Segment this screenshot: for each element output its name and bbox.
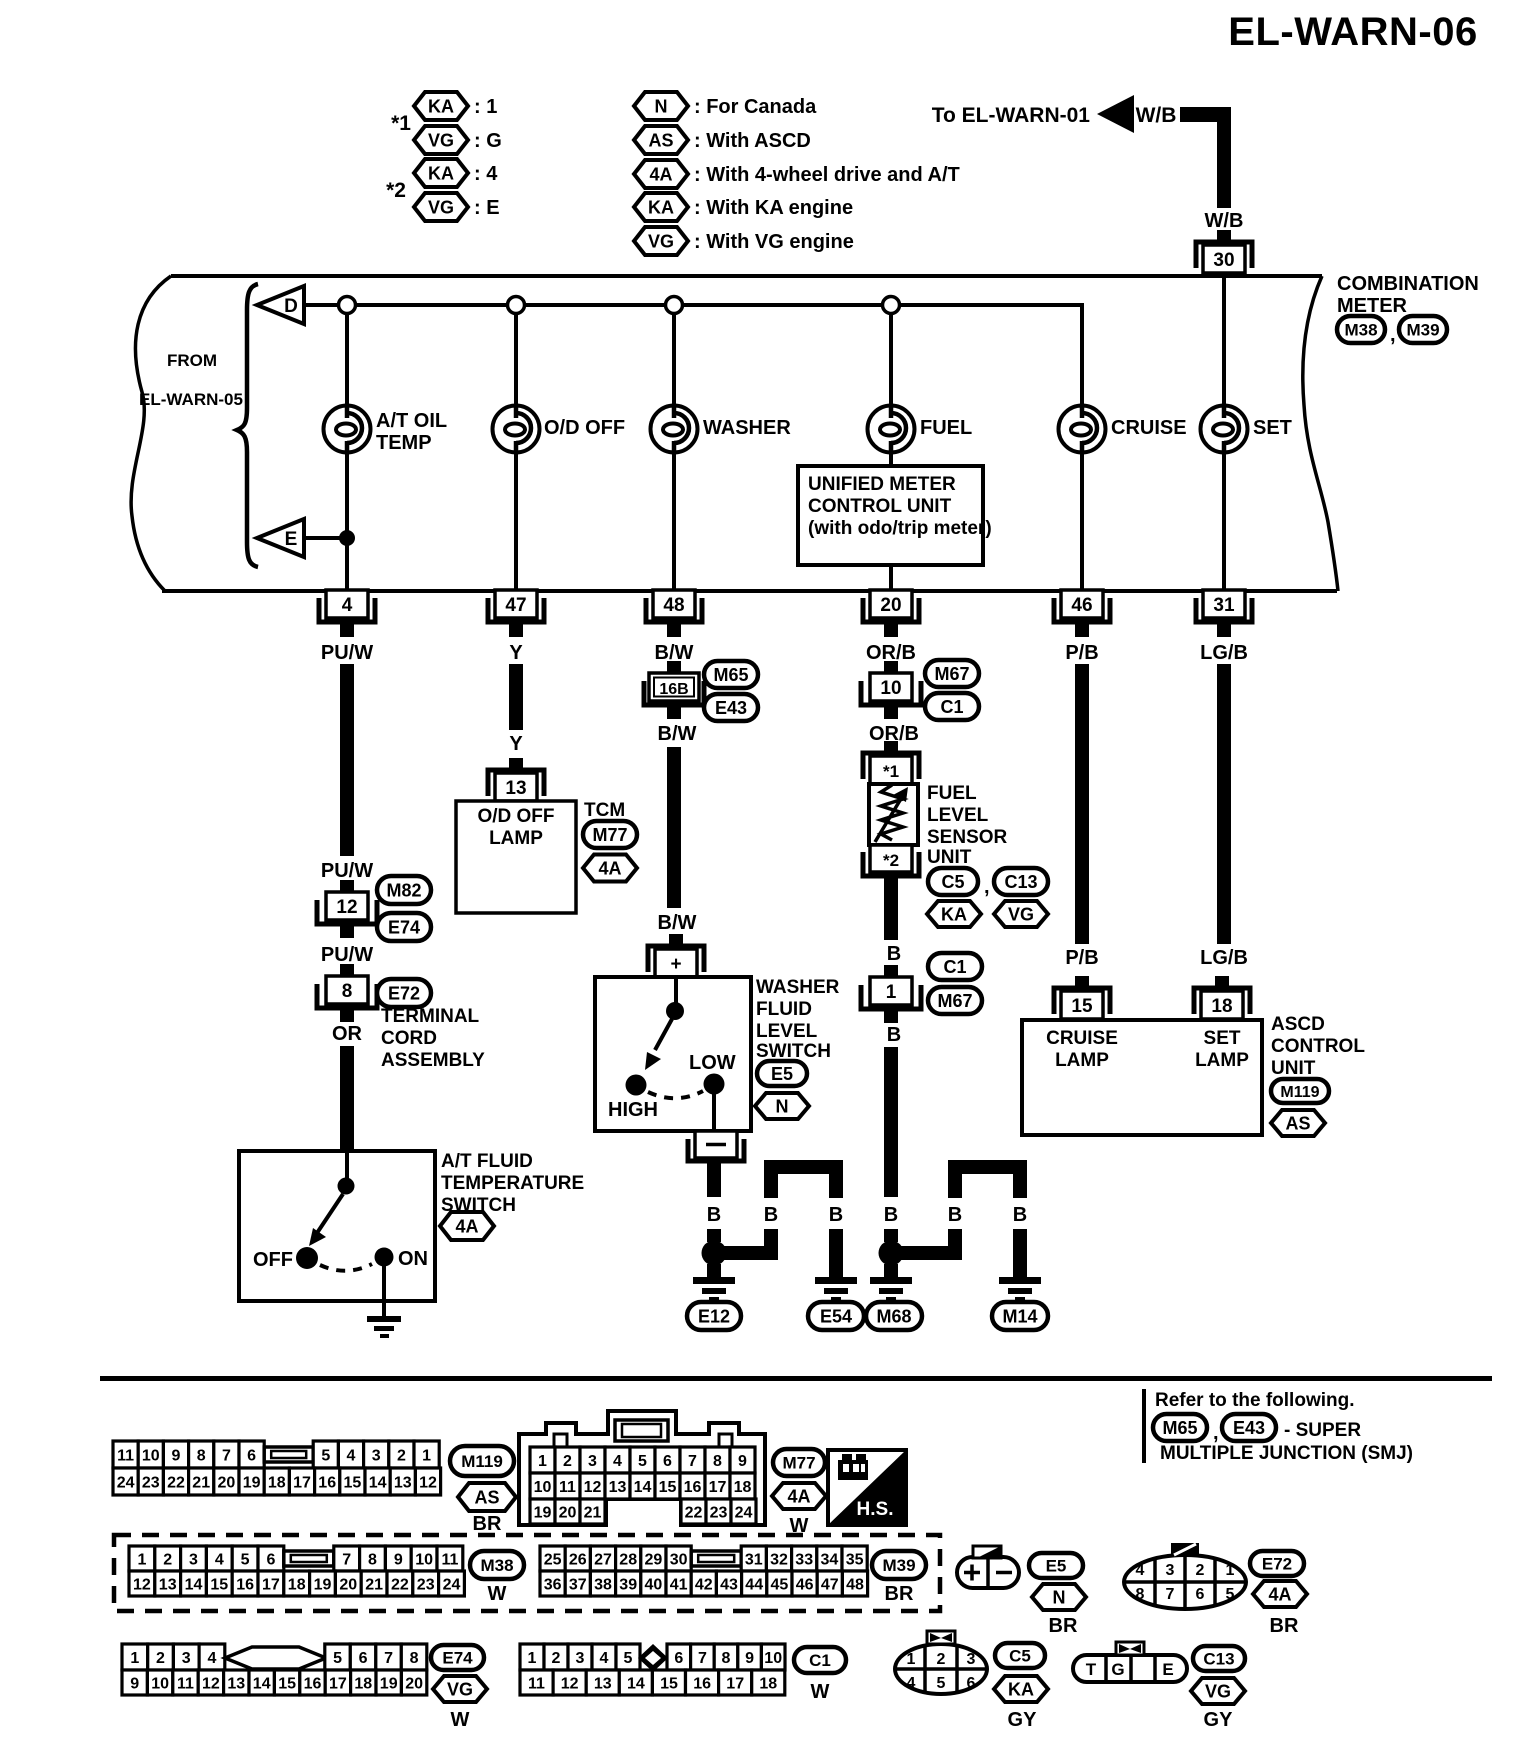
svg-text:23: 23 [417, 1576, 435, 1593]
lamp O/D OFF [493, 406, 626, 453]
svg-text:B: B [887, 943, 901, 965]
svg-text:*1: *1 [391, 112, 411, 135]
washer switch pivot contact [666, 1002, 684, 1020]
svg-text:W/B: W/B [1205, 210, 1244, 232]
connector - (washer switch bottom) [688, 1131, 744, 1176]
svg-text:M67: M67 [937, 991, 972, 1011]
svg-text:6: 6 [266, 1551, 275, 1568]
junction circle D/fuel [883, 297, 900, 314]
svg-text:B: B [887, 1024, 901, 1046]
svg-text:METER: METER [1337, 295, 1408, 317]
connector M77 key slot [615, 1420, 668, 1441]
svg-text:: E: : E [474, 197, 500, 219]
svg-text:15: 15 [660, 1675, 678, 1692]
meter pin 4 [319, 590, 375, 637]
svg-text:O/D OFF: O/D OFF [544, 417, 625, 439]
A/T switch ON contact [375, 1248, 394, 1267]
svg-text:8: 8 [342, 981, 353, 1002]
connector 10 (M67/C1) [861, 661, 921, 719]
svg-text:16: 16 [236, 1576, 254, 1593]
svg-text:N: N [776, 1096, 789, 1116]
svg-text:COMBINATION: COMBINATION [1337, 273, 1479, 295]
svg-text:48: 48 [846, 1576, 864, 1593]
svg-text:FUEL: FUEL [920, 417, 972, 439]
wire O/D off column (meter) [514, 305, 518, 591]
svg-text:10: 10 [534, 1479, 552, 1496]
connector ref E72 (grid) [1250, 1551, 1304, 1576]
svg-text:M65: M65 [1162, 1418, 1197, 1438]
svg-text:M39: M39 [1406, 321, 1439, 340]
connector ref M65 [704, 661, 758, 688]
svg-text:: With ASCD: : With ASCD [694, 130, 811, 152]
svg-text:M65: M65 [713, 665, 748, 685]
section divider line [100, 1376, 1492, 1381]
svg-text:O/D OFF: O/D OFF [477, 806, 554, 827]
connector grid M39 [540, 1546, 868, 1596]
svg-text:11: 11 [177, 1675, 194, 1692]
junction dot M68 [879, 1241, 904, 1266]
svg-text:KA: KA [428, 96, 454, 116]
svg-text:18: 18 [268, 1474, 286, 1491]
connector ref M77 (TCM) [583, 821, 637, 848]
svg-text:30: 30 [670, 1551, 688, 1568]
connector 12 (M82/E74) [317, 880, 377, 938]
label A/T FLUID TEMPERATURE SWITCH [441, 1151, 584, 1216]
svg-text:4: 4 [613, 1453, 622, 1470]
svg-text:: G: : G [474, 130, 502, 152]
svg-text:33: 33 [795, 1551, 813, 1568]
svg-text:CRUISE: CRUISE [1046, 1028, 1118, 1049]
wire M14 branch left leg upper [948, 1174, 962, 1198]
legend hex VG (*2) [414, 193, 468, 221]
svg-text:CRUISE: CRUISE [1111, 417, 1187, 439]
arrow to EL-WARN-01 [1097, 95, 1134, 133]
svg-text:B/W: B/W [655, 642, 694, 664]
svg-text:38: 38 [594, 1576, 612, 1593]
svg-text:28: 28 [619, 1551, 637, 1568]
connector ref M39 (meter) [1399, 316, 1447, 343]
svg-text:19: 19 [380, 1675, 398, 1692]
ground (A/T switch) [367, 1316, 401, 1338]
svg-text:LAMP: LAMP [1055, 1050, 1109, 1071]
wire M14 bridge top [948, 1160, 1027, 1174]
svg-text:OFF: OFF [253, 1249, 293, 1271]
connector 1 (C1/M67) [861, 965, 921, 1023]
label TERMINAL CORD ASSEMBLY [381, 1006, 485, 1071]
svg-text:E43: E43 [715, 698, 747, 718]
svg-text:17: 17 [329, 1675, 347, 1692]
connector ref M65 (refer) [1153, 1414, 1207, 1441]
svg-text:*2: *2 [386, 179, 406, 202]
svg-text:18: 18 [354, 1675, 372, 1692]
svg-text:TCM: TCM [584, 800, 625, 821]
svg-text:H.S.: H.S. [857, 1499, 894, 1520]
svg-text:6: 6 [663, 1453, 672, 1470]
svg-text:4: 4 [1136, 1562, 1145, 1579]
svg-text:HIGH: HIGH [608, 1099, 658, 1121]
legend hex VG engine [634, 227, 688, 255]
svg-text:OR: OR [332, 1023, 363, 1045]
svg-text:LEVEL: LEVEL [927, 805, 989, 826]
svg-text:FUEL: FUEL [927, 783, 977, 804]
connector ref M119 (ASCD) [1271, 1079, 1329, 1103]
svg-text:E: E [285, 529, 298, 550]
connector ref E54 [808, 1302, 864, 1330]
wire M14 branch left leg lower [948, 1229, 962, 1246]
svg-text:TEMPERATURE: TEMPERATURE [441, 1173, 584, 1194]
svg-text:1: 1 [907, 1651, 916, 1668]
wire M14 branch right leg upper [1013, 1174, 1027, 1198]
svg-text:1: 1 [528, 1650, 537, 1667]
junction circle D/washer [666, 297, 683, 314]
svg-text:AS: AS [648, 130, 673, 150]
wire W/B vertical [1217, 107, 1231, 208]
svg-text:17: 17 [293, 1474, 311, 1491]
connector 16B (M65/E43 SMJ) [644, 661, 704, 719]
svg-text:26: 26 [569, 1551, 587, 1568]
svg-text:+: + [670, 954, 681, 975]
svg-text:12: 12 [336, 897, 357, 918]
washer switch dashed travel arc [648, 1091, 703, 1098]
connector ref M14 [992, 1302, 1048, 1330]
svg-text:: 1: : 1 [474, 96, 497, 118]
connector E5 body [957, 1557, 1019, 1588]
combination meter torn left edge [131, 276, 171, 591]
hex 4A (A/T switch) [440, 1212, 494, 1240]
svg-text:B: B [829, 1204, 843, 1226]
svg-text:D: D [284, 296, 298, 317]
svg-text:5: 5 [624, 1650, 633, 1667]
svg-text:22: 22 [685, 1504, 703, 1521]
svg-text:2: 2 [1196, 1562, 1205, 1579]
svg-text:31: 31 [1213, 595, 1235, 616]
connector C5 key notch [927, 1631, 955, 1644]
wire bridge dot to E54 branch [720, 1246, 778, 1260]
legend hex KA (*2) [414, 159, 468, 187]
svg-text:WASHER: WASHER [756, 977, 840, 998]
hex 4A (M77 grid) [772, 1483, 826, 1509]
svg-text:30: 30 [1213, 250, 1234, 271]
A/T switch pivot contact [338, 1178, 355, 1195]
svg-text:24: 24 [443, 1576, 461, 1593]
connector ref C1 (lower) [928, 953, 982, 980]
A/T switch OFF contact [296, 1247, 318, 1269]
svg-text:12: 12 [133, 1576, 151, 1593]
connector grid M119 [113, 1441, 441, 1495]
svg-text:1: 1 [538, 1453, 547, 1470]
svg-text:PU/W: PU/W [321, 642, 373, 664]
svg-text:GY: GY [1008, 1709, 1038, 1731]
connector ref M38 (grid) [470, 1551, 524, 1579]
wire E54 branch left leg lower [764, 1229, 778, 1246]
svg-text:8: 8 [368, 1551, 377, 1568]
svg-text:3: 3 [967, 1651, 976, 1668]
svg-text:11: 11 [528, 1675, 545, 1692]
svg-text:48: 48 [663, 595, 684, 616]
svg-text:8: 8 [1136, 1586, 1145, 1603]
svg-text:18: 18 [288, 1576, 306, 1593]
refer-to block rule [1142, 1389, 1146, 1463]
connector *2 (fuel sensor) [863, 845, 919, 890]
svg-text:9: 9 [394, 1551, 403, 1568]
svg-text:To EL-WARN-01: To EL-WARN-01 [932, 104, 1091, 127]
svg-text:20: 20 [218, 1474, 236, 1491]
connector ref M67 (lower) [928, 987, 982, 1014]
svg-text:4A: 4A [1268, 1584, 1291, 1604]
lamp WASHER [651, 406, 792, 453]
svg-text:5: 5 [241, 1551, 250, 1568]
svg-text:,: , [1213, 1422, 1219, 1444]
svg-text:14: 14 [369, 1474, 387, 1491]
svg-text:E: E [1162, 1660, 1173, 1679]
svg-text:7: 7 [1166, 1586, 1175, 1603]
svg-text:- SUPER: - SUPER [1284, 1420, 1361, 1441]
hex AS (M119 grid) [458, 1483, 516, 1511]
wire fuel column (meter) [889, 305, 893, 591]
svg-text:6: 6 [247, 1447, 256, 1464]
svg-text:17: 17 [262, 1576, 280, 1593]
svg-text:G: G [1111, 1660, 1124, 1679]
svg-text:13: 13 [505, 778, 526, 799]
svg-text:16: 16 [318, 1474, 336, 1491]
svg-text:AS: AS [474, 1487, 499, 1507]
wire OR column 1 [340, 1046, 354, 1152]
svg-text:2: 2 [937, 1651, 946, 1668]
connector 13 (TCM) [488, 758, 544, 801]
svg-text:C1: C1 [940, 697, 963, 717]
svg-text:45: 45 [771, 1576, 789, 1593]
hex N (E5 grid) [1032, 1584, 1086, 1610]
svg-text:8: 8 [410, 1650, 419, 1667]
svg-text:SET: SET [1204, 1028, 1241, 1049]
connector M77 left notch [554, 1434, 567, 1447]
A/T switch arm with arrowhead [309, 1194, 343, 1246]
svg-text:10: 10 [764, 1650, 782, 1667]
svg-text:27: 27 [594, 1551, 612, 1568]
svg-text:B: B [948, 1204, 962, 1226]
meter pin 47 [488, 590, 544, 637]
hex AS (ASCD) [1271, 1110, 1325, 1136]
svg-text:EL-WARN-05: EL-WARN-05 [139, 390, 243, 409]
svg-text:2: 2 [156, 1650, 165, 1667]
connector ref M82 [377, 876, 431, 904]
washer switch HIGH contact [626, 1075, 647, 1096]
connector ref M67 (upper) [925, 660, 979, 687]
ground (E12) [693, 1277, 735, 1302]
svg-text:: With 4-wheel drive and A/T: : With 4-wheel drive and A/T [694, 164, 960, 186]
svg-text:LOW: LOW [689, 1052, 736, 1074]
svg-text:5: 5 [1226, 1586, 1235, 1603]
svg-text:13: 13 [159, 1576, 177, 1593]
wire B/W column 3 [667, 747, 681, 908]
svg-text:19: 19 [243, 1474, 261, 1491]
combination meter bottom edge [162, 589, 1337, 593]
svg-text:E5: E5 [1046, 1557, 1067, 1576]
svg-text:18: 18 [1211, 996, 1232, 1017]
svg-text:M77: M77 [592, 825, 627, 845]
svg-text:4: 4 [600, 1650, 609, 1667]
wire M14 branch right leg lower [1013, 1229, 1027, 1277]
connector E72 key notch [1171, 1543, 1199, 1556]
svg-text:: 4: : 4 [474, 163, 498, 185]
svg-text:VG: VG [1205, 1681, 1231, 1701]
svg-text:PU/W: PU/W [321, 944, 373, 966]
svg-text:6: 6 [967, 1675, 976, 1692]
svg-text:KA: KA [941, 904, 967, 924]
svg-text:OR/B: OR/B [866, 642, 916, 664]
svg-text:34: 34 [821, 1551, 839, 1568]
wire into A/T switch [345, 1151, 349, 1180]
svg-text:14: 14 [627, 1675, 645, 1692]
legend hex KA (*1) [414, 92, 468, 120]
svg-text:7: 7 [222, 1447, 231, 1464]
svg-text:13: 13 [609, 1479, 627, 1496]
svg-text:12: 12 [202, 1675, 220, 1692]
svg-text:T: T [1086, 1660, 1097, 1679]
wire LOW contact down [712, 1092, 716, 1131]
legend hex KA engine [634, 193, 688, 221]
wire E54 branch right leg upper [829, 1174, 843, 1198]
svg-text:20: 20 [339, 1576, 357, 1593]
connector grid C1 [520, 1644, 785, 1695]
svg-text:17: 17 [709, 1479, 727, 1496]
svg-text:23: 23 [142, 1474, 160, 1491]
svg-text:ASSEMBLY: ASSEMBLY [381, 1050, 485, 1071]
svg-text:44: 44 [745, 1576, 763, 1593]
svg-text:10: 10 [151, 1675, 169, 1692]
svg-text:6: 6 [359, 1650, 368, 1667]
wire E54 bridge top [764, 1160, 843, 1174]
connector ref M38 (meter) [1337, 316, 1385, 343]
connector 30 (combination meter) [1196, 230, 1252, 273]
svg-text:M38: M38 [1344, 321, 1377, 340]
connector ref E43 (refer) [1222, 1414, 1276, 1441]
svg-text:37: 37 [569, 1576, 587, 1593]
svg-text:TERMINAL: TERMINAL [381, 1006, 480, 1027]
svg-text:TEMP: TEMP [376, 432, 432, 454]
wire E54 branch left leg upper [764, 1174, 778, 1198]
svg-text:3: 3 [189, 1551, 198, 1568]
svg-text:3: 3 [372, 1447, 381, 1464]
svg-text:VG: VG [648, 231, 674, 251]
svg-text:A/T FLUID: A/T FLUID [441, 1151, 533, 1172]
O/D OFF lamp box (TCM) [456, 801, 576, 913]
svg-text:17: 17 [726, 1675, 744, 1692]
dashed assembly outline (M38/M39) [114, 1535, 940, 1611]
svg-text:47: 47 [821, 1576, 839, 1593]
connector C13 body [1073, 1655, 1187, 1682]
wire PU/W column 1 [340, 664, 354, 856]
svg-text:PU/W: PU/W [321, 860, 373, 882]
label WASHER FLUID LEVEL SWITCH [756, 977, 840, 1062]
ground (E54) [815, 1277, 857, 1302]
svg-text:LG/B: LG/B [1200, 947, 1248, 969]
svg-text:FROM: FROM [167, 351, 217, 370]
wire from E to A/T oil temp column [304, 536, 347, 540]
svg-text:7: 7 [698, 1650, 707, 1667]
svg-text:5: 5 [638, 1453, 647, 1470]
connector ref C1 (grid) [794, 1647, 846, 1673]
svg-text:2: 2 [563, 1453, 572, 1470]
connector + (washer switch) [648, 934, 704, 977]
svg-text:9: 9 [745, 1650, 754, 1667]
svg-text:4A: 4A [787, 1486, 810, 1506]
svg-text:Y: Y [509, 733, 523, 755]
wire B column 4 [884, 1047, 898, 1197]
svg-text:22: 22 [167, 1474, 185, 1491]
svg-text:4: 4 [342, 595, 353, 616]
svg-text:16: 16 [693, 1675, 711, 1692]
svg-text:1: 1 [137, 1551, 146, 1568]
washer fluid level switch box [595, 977, 751, 1131]
connector ref E5 (washer) [757, 1061, 807, 1086]
svg-text:19: 19 [534, 1504, 552, 1521]
svg-text:W: W [811, 1681, 830, 1703]
svg-text:Refer to the following.: Refer to the following. [1155, 1390, 1355, 1411]
svg-text:KA: KA [1008, 1679, 1034, 1699]
lamp FUEL [868, 406, 973, 453]
svg-text:41: 41 [670, 1576, 688, 1593]
node D triangle [257, 286, 304, 324]
svg-text:CORD: CORD [381, 1028, 437, 1049]
connector ref M68 [866, 1302, 922, 1330]
svg-text:14: 14 [634, 1479, 652, 1496]
svg-text:9: 9 [130, 1675, 139, 1692]
svg-text:B/W: B/W [658, 912, 697, 934]
svg-text:*2: *2 [883, 851, 899, 870]
svg-text:2: 2 [397, 1447, 406, 1464]
A/T fluid temperature switch box [239, 1151, 435, 1301]
svg-text:(with odo/trip meter): (with odo/trip meter) [808, 518, 992, 539]
ASCD control unit box [1022, 1020, 1262, 1135]
svg-text:47: 47 [505, 595, 526, 616]
svg-text:CONTROL: CONTROL [1271, 1036, 1365, 1057]
connector ref M39 (grid) [872, 1551, 926, 1579]
svg-text:11: 11 [441, 1551, 458, 1568]
svg-text:ON: ON [398, 1248, 428, 1270]
svg-text:16B: 16B [659, 681, 688, 698]
label COMBINATION METER [1337, 273, 1479, 317]
svg-text:GY: GY [1204, 1709, 1234, 1731]
svg-text:14: 14 [253, 1675, 271, 1692]
svg-text:BR: BR [885, 1583, 914, 1605]
connector 18 (ASCD set) [1194, 976, 1250, 1019]
connector grid M38 [129, 1546, 464, 1596]
A/T switch dashed travel arc [320, 1264, 372, 1271]
svg-text:: For Canada: : For Canada [694, 96, 817, 118]
svg-text:SET: SET [1253, 417, 1292, 439]
svg-text:UNIT: UNIT [927, 847, 972, 868]
svg-text:FLUID: FLUID [756, 999, 812, 1020]
svg-text:1: 1 [422, 1447, 431, 1464]
connector ref C13 (fuel) [994, 868, 1048, 895]
connector 8 (E72) [317, 964, 377, 1022]
connector M77 right notch [719, 1434, 732, 1447]
brace from EL-WARN-05 [237, 284, 258, 567]
hex KA (fuel) [927, 901, 981, 927]
svg-text:LAMP: LAMP [1195, 1050, 1249, 1071]
svg-text:7: 7 [688, 1453, 697, 1470]
combination meter top edge [171, 274, 1322, 278]
connector ref E74 [377, 913, 431, 941]
svg-text:VG: VG [428, 197, 454, 217]
legend hex AS [634, 126, 688, 154]
legend hex VG (*1) [414, 126, 468, 154]
svg-text:C1: C1 [943, 957, 966, 977]
connector ref M119 (grid) [450, 1446, 514, 1476]
hex VG (fuel) [994, 901, 1048, 927]
svg-text:M77: M77 [782, 1454, 815, 1473]
